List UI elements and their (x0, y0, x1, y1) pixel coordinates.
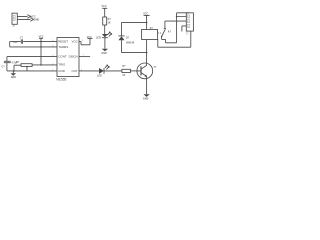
svg-text:1K: 1K (108, 22, 111, 25)
svg-text:.1uF: .1uF (13, 41, 18, 44)
svg-text:NE555: NE555 (56, 77, 66, 81)
svg-text:R?: R? (108, 18, 112, 21)
svg-text:OUT: OUT (72, 69, 78, 73)
svg-text:2: 2 (188, 21, 189, 23)
svg-text:K?: K? (168, 31, 172, 34)
svg-text:1K: 1K (122, 74, 125, 77)
svg-text:GND: GND (101, 52, 107, 55)
svg-text:GND: GND (58, 69, 65, 73)
svg-text:VCC: VCC (143, 13, 148, 16)
svg-text:K?: K? (150, 27, 154, 30)
svg-text:RESET: RESET (58, 40, 68, 44)
svg-text:VCC: VCC (39, 36, 44, 39)
svg-text:VCC: VCC (87, 36, 92, 39)
svg-text:GND: GND (11, 76, 17, 79)
svg-text:DISCH: DISCH (69, 55, 78, 59)
svg-text:LED: LED (96, 36, 101, 39)
svg-text:D?: D? (126, 36, 130, 39)
svg-text:GND: GND (34, 19, 40, 22)
svg-text:1N4148: 1N4148 (126, 42, 135, 45)
svg-text:R?: R? (122, 65, 126, 68)
svg-text:GND: GND (143, 97, 149, 100)
svg-text:R?: R? (16, 61, 20, 64)
svg-text:C?: C? (20, 37, 24, 40)
svg-text:THRES: THRES (58, 45, 68, 49)
svg-text:VCC: VCC (72, 40, 79, 44)
svg-text:C?: C? (2, 66, 6, 69)
svg-text:3: 3 (188, 26, 189, 28)
svg-text:1: 1 (188, 16, 189, 18)
svg-text:CONT: CONT (58, 55, 67, 59)
svg-text:LED: LED (97, 75, 102, 78)
svg-text:VCC: VCC (102, 5, 107, 8)
svg-text:TRIG: TRIG (58, 63, 66, 67)
